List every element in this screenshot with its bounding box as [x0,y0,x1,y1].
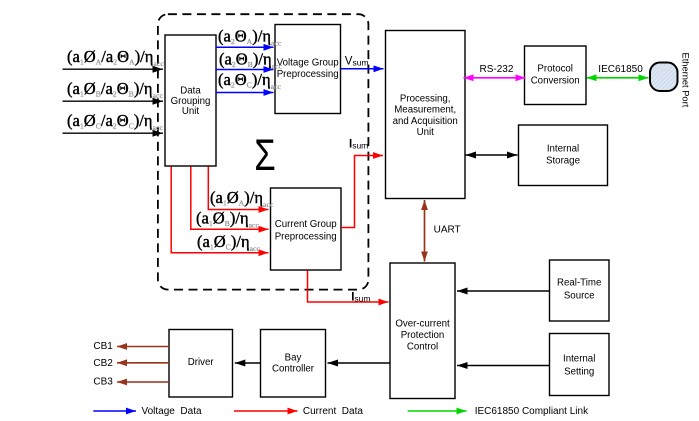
svg-text:Data: Data [180,86,201,97]
label: IEC61850 Compliant Link [475,406,589,417]
svg-text:Processing,: Processing, [400,93,451,104]
svg-text:RS-232: RS-232 [480,64,514,75]
wire: current A from Data Grouping Unit to Current Group Preprocessing [208,167,268,210]
label: RS-232 [480,64,514,75]
wire: Internal Setting to Over-current Protection Control [457,365,550,367]
svg-text:Preprocessing: Preprocessing [275,231,337,242]
svg-text:Current Data: Current Data [303,406,363,417]
wire: current C from Data Grouping Unit to Current Group Preprocessing [171,167,268,253]
dashed grouping boundary [158,14,369,289]
wire: voltage C to Voltage Group Preprocessing [216,92,274,94]
label: input C formula [67,111,163,132]
label: CB3 [93,377,113,388]
legend: current data arrow [234,410,298,412]
wire: Over-current Protection Control to Bay Controller [328,362,391,364]
wire: input phase C into Data Grouping Unit [63,132,164,134]
svg-text:(a2ΘC)/ηacc: (a2ΘC)/ηacc [218,70,281,91]
svg-text:and Acquisition: and Acquisition [393,116,458,127]
svg-text:Vsum: Vsum [345,55,369,67]
label: CB1 [93,341,113,352]
svg-text:Bay: Bay [285,353,302,364]
wire: voltage A to Voltage Group Preprocessing [216,46,274,48]
svg-text:Unit: Unit [182,106,200,117]
block: Internal Setting [550,334,610,396]
svg-text:UART: UART [434,224,461,235]
svg-text:Setting: Setting [564,366,594,377]
svg-text:Real-Time: Real-Time [557,277,601,288]
svg-text:Conversion: Conversion [531,76,580,87]
wire: Driver to CB2 [117,362,169,364]
svg-text:CB1: CB1 [93,341,113,352]
wire: Isum from Current Group Preprocessing to Processing Unit [341,156,383,228]
svg-text:IEC61850 Compliant Link: IEC61850 Compliant Link [475,406,589,417]
legend: voltage data arrow [93,410,136,412]
label: Ethernet Port (rotated) [681,53,691,108]
block: Processing, Measurement, and Acquisition Unit U-PMU [386,31,466,199]
svg-text:Isum: Isum [349,139,368,151]
wire: Bay Controller to Driver [235,362,261,364]
label: Isum lower [351,291,370,303]
svg-text:Measurement,: Measurement, [394,105,456,116]
svg-text:Protocol: Protocol [537,63,573,74]
summation symbol [254,131,275,180]
block: Current Group Preprocessing [271,188,342,270]
svg-text:Current Group: Current Group [275,219,337,230]
label: Current Data [303,406,363,417]
svg-text:Unit: Unit [417,127,435,138]
label: voltage B formula [219,50,282,71]
svg-text:Isum: Isum [351,291,370,303]
block: Internal Storage [519,125,608,186]
label: IEC61850 [598,64,643,75]
block: Real-Time Source [550,260,610,321]
ethernet port symbol [650,63,678,92]
label: input A formula [67,47,164,68]
label: input B formula [67,79,163,100]
svg-text:(a1ØB/a2ΘB)/ηacc: (a1ØB/a2ΘB)/ηacc [67,79,163,100]
svg-text:Driver: Driver [188,357,215,368]
label: Voltage Data [142,406,202,417]
svg-text:(a2ΘA)/ηacc: (a2ΘA)/ηacc [218,27,282,48]
wire: voltage B to Voltage Group Preprocessing [216,69,274,71]
svg-text:(a1ØC/a2ΘC)/ηacc: (a1ØC/a2ΘC)/ηacc [67,111,163,132]
wire: Driver to CB1 [117,346,169,348]
svg-text:CB3: CB3 [93,377,113,388]
svg-text:Voltage Data: Voltage Data [142,406,202,417]
wire: Real-Time Source to Over-current Protection Control [457,290,550,292]
svg-text:Storage: Storage [546,156,580,167]
wire: Vsum to Processing Unit [341,68,384,70]
svg-text:(a1ØB)/ηacc: (a1ØB)/ηacc [196,209,259,230]
svg-text:IEC61850: IEC61850 [598,64,643,75]
svg-text:Over-current: Over-current [395,319,450,330]
label: voltage C formula [218,70,281,91]
wire: Isum from Current Group Preprocessing to Over-current Protection Control [308,271,389,303]
wire: current B from Data Grouping Unit to Current Group Preprocessing [191,167,269,230]
svg-text:Voltage Group: Voltage Group [277,57,339,68]
label: UART [434,224,461,235]
block: Protocol Conversion [525,46,587,105]
block: Voltage Group Preprocessing [275,25,341,114]
wire: Processing Unit to Internal Storage (bidirectional) [466,154,518,156]
svg-text:Control: Control [407,342,438,353]
wire: IEC61850 link Protocol Conversion to Ethernet Port [587,77,649,79]
legend: IEC61850 compliant link arrow [408,410,467,412]
svg-text:Source: Source [564,290,595,301]
svg-text:Preprocessing: Preprocessing [277,69,339,80]
wire: RS-232 link Processing Unit to Protocol Conversion [464,77,526,79]
svg-text:Ethernet Port: Ethernet Port [681,53,691,108]
svg-text:(a2ΘB)/ηacc: (a2ΘB)/ηacc [219,50,282,71]
label: current B formula [196,209,259,230]
svg-text:Internal: Internal [563,354,595,365]
label: Vsum [345,55,369,67]
block: Driver [169,330,233,398]
label: CB2 [93,358,113,369]
svg-text:(a1ØA)/ηacc: (a1ØA)/ηacc [210,188,274,209]
svg-text:(a1ØC)/ηacc: (a1ØC)/ηacc [197,232,260,253]
svg-text:Controller: Controller [272,363,315,374]
svg-text:Internal: Internal [547,144,579,155]
wire: input phase A into Data Grouping Unit [63,68,164,70]
block: Bay Controller [261,330,326,398]
label: Isum upper [349,139,368,151]
block: Data Grouping Unit [165,35,216,166]
wire: input phase B into Data Grouping Unit [63,100,164,102]
block: Over-current Protection Control [390,263,455,399]
svg-text:Σ: Σ [254,131,275,180]
wire: Driver to CB3 [117,381,169,383]
svg-text:(a1ØA/a2ΘA)/ηacc: (a1ØA/a2ΘA)/ηacc [67,47,164,68]
label: current C formula [197,232,260,253]
svg-text:CB2: CB2 [93,358,113,369]
svg-text:Protection: Protection [401,330,445,341]
label: voltage A formula [218,27,282,48]
label: current A formula [210,188,274,209]
wire: UART link Processing Unit to Over-current Protection Control [424,200,426,262]
